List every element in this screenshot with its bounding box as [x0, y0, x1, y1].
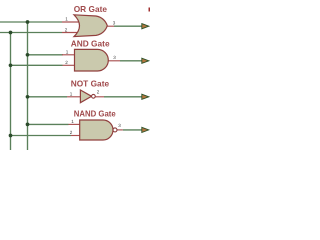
op: OR gate U1 body [74, 15, 107, 37]
terminal arrow for NAND output [142, 127, 149, 132]
wire: NAND gate input 1 branch [28, 123, 69, 125]
svg-text:2: 2 [65, 60, 68, 65]
svg-text:2: 2 [97, 89, 100, 94]
terminal arrow for NOT output [142, 94, 149, 99]
svg-text:3: 3 [113, 55, 116, 60]
svg-text:1: 1 [70, 91, 73, 96]
pin stubs (red) [62, 22, 123, 136]
cut-off red marking at top right edge [149, 8, 151, 12]
terminal arrow for AND output [142, 58, 149, 63]
svg-text:OR Gate: OR Gate [74, 4, 108, 14]
wire: vertical bus 1 [10, 33, 12, 151]
pin 3 OR output stub [107, 25, 114, 27]
junction dot at vertical bus 2 / NOT input [26, 95, 30, 99]
pin 2 AND input stub [63, 64, 75, 66]
wire: vertical bus 2 [27, 22, 29, 150]
pin 2 OR input B stub [62, 32, 80, 34]
op: AND gate U2 body [75, 49, 109, 71]
wire: OR gate input B horizontal from left edge [0, 32, 62, 34]
svg-text:2: 2 [70, 130, 73, 135]
wire: NOT gate output to terminal [104, 96, 142, 98]
svg-text:3: 3 [118, 123, 121, 128]
junction dot at vertical bus 1 / OR input B [9, 31, 13, 35]
junction dot at vertical bus 1 / NAND input 2 [9, 134, 13, 138]
junction dot at vertical bus 2 / AND input 1 [26, 53, 30, 57]
NAND gate output bubble [113, 128, 117, 132]
junction dot at vertical bus 2 / NAND input 1 [26, 123, 30, 127]
pin 1 AND input stub [62, 54, 75, 56]
wire: AND gate input 1 branch [28, 54, 64, 56]
svg-text:1: 1 [71, 119, 74, 124]
wire: OR gate output to terminal [114, 25, 142, 27]
pin 1 OR input A stub [62, 21, 80, 23]
junction dot at vertical bus 2 / OR input A [9, 20, 30, 137]
wire: NAND gate output to terminal [123, 129, 142, 131]
pin number 1 of OR [65, 17, 122, 135]
NOT gate output bubble [92, 94, 96, 98]
svg-text:3: 3 [113, 20, 116, 25]
svg-text:2: 2 [65, 28, 68, 33]
wire: OR gate input A horizontal from left edge [0, 22, 142, 150]
op: NAND gate U4 body [80, 120, 113, 140]
pin 3 NAND output stub [117, 129, 123, 131]
op: NOT gate U3 triangle [80, 90, 91, 103]
svg-text:NAND Gate: NAND Gate [74, 110, 117, 119]
terminal arrow for OR output [142, 24, 149, 29]
svg-text:1: 1 [66, 50, 69, 55]
junction dot at vertical bus 1 / AND input 2 [9, 63, 13, 67]
pin 3 AND output stub [108, 60, 120, 62]
wire: NAND gate input 2 branch [11, 135, 72, 137]
pin 2 NAND input stub [71, 135, 80, 137]
svg-text:AND Gate: AND Gate [71, 39, 110, 49]
pin 1 NAND input stub [69, 123, 80, 125]
wire: AND gate input 2 branch [11, 64, 63, 66]
svg-text:1: 1 [65, 17, 68, 22]
pin 2 NOT output stub [95, 96, 104, 98]
svg-text:NOT Gate: NOT Gate [71, 79, 110, 89]
wire: NOT gate input branch [28, 96, 68, 98]
wire: AND gate output to terminal [120, 60, 142, 62]
pin 1 NOT input stub [67, 96, 80, 98]
